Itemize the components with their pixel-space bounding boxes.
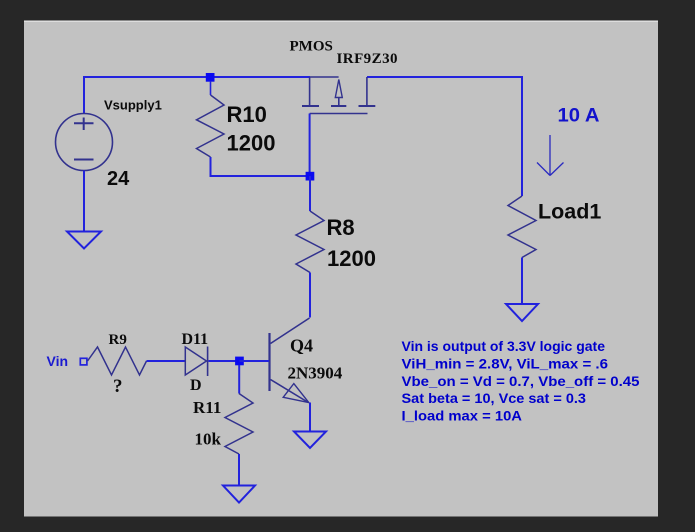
wire gate to junction [309,114,311,177]
base bar [268,333,270,391]
wire R9 to D11 [147,360,186,362]
svg-text:1200: 1200 [227,131,276,156]
svg-text:10 A: 10 A [558,106,600,127]
svg-text:PMOS: PMOS [290,38,333,54]
wire junction to Q4 base [240,360,270,362]
svg-text:24: 24 [107,168,130,190]
wire top rail right [367,77,522,196]
svg-text:D: D [190,377,202,394]
svg-text:D11: D11 [182,331,209,348]
node junction R10/R8/gate [306,172,315,181]
svg-text:R10: R10 [227,102,267,127]
svg-text:1200: 1200 [327,246,376,271]
resistor R9 [88,347,147,375]
annotation note text [402,338,640,424]
node junction at top rail / R10 [206,73,215,82]
svg-text:Sat beta = 10, Vce sat = 0.3: Sat beta = 10, Vce sat = 0.3 [402,390,587,406]
emitter arrow [283,384,309,403]
svg-text:Load1: Load1 [538,200,601,224]
svg-text:10k: 10k [195,430,222,449]
wire R10 top lead [210,81,212,95]
source plate [302,105,319,107]
ground (Load1) [506,304,538,321]
emitter lead [271,380,308,403]
node junction base/R11 [235,357,244,366]
wire R8 bottom to Q4 collector [309,273,311,318]
svg-text:Vsupply1: Vsupply1 [104,98,162,113]
wire Vsupply1 to ground [83,171,85,232]
resistor R11 [225,394,253,455]
ground (Vsupply1) [67,232,101,249]
transistor Q4 [270,318,310,403]
svg-text:R11: R11 [193,398,221,417]
collector lead [271,318,310,344]
drain plate [359,105,376,107]
svg-text:Vin is output of 3.3V logic ga: Vin is output of 3.3V logic gate [402,338,606,354]
drain stub [366,77,368,105]
svg-text:Vbe_on = Vd = 0.7, Vbe_off =: Vbe_on = Vd = 0.7, Vbe_off = 0.45 [402,373,640,389]
ground (R11) [223,486,255,503]
svg-text:I_load max = 10A: I_load max = 10A [402,408,523,424]
wire D11 to base junction [209,360,240,362]
wire Load1 to ground [521,258,523,305]
svg-text:Q4: Q4 [290,336,313,356]
svg-text:Vin: Vin [47,353,69,369]
pad Vin [80,358,87,365]
current arrow 10 A [537,135,564,176]
voltage source Vsupply1 [56,114,113,171]
resistor R10 [197,95,225,157]
svg-text:?: ? [113,376,123,397]
wire top rail left [84,77,310,114]
svg-text:IRF9Z30: IRF9Z30 [337,51,399,67]
body bar to arrow [310,76,339,78]
body plate [331,105,346,107]
svg-text:ViH_min = 2.8V, ViL_max = .6: ViH_min = 2.8V, ViL_max = .6 [402,355,609,371]
wire junction down to R11 [238,365,240,394]
diode D11 [185,347,207,377]
svg-text:R8: R8 [327,215,355,240]
wire Q4 emitter to ground [309,403,311,432]
source stub [309,77,311,105]
ground (Q4 emitter) [294,432,326,449]
svg-text:R9: R9 [109,332,127,348]
transistor U1 PMOS IRF9Z30 [302,77,375,114]
gate line [310,113,368,115]
wire R10 bottom to junction [211,157,311,176]
resistor Load1 [508,196,536,258]
wire R11 to ground [238,454,240,486]
svg-text:2N3904: 2N3904 [288,364,343,383]
wire R8 top lead [309,176,311,211]
body arrow [335,80,342,98]
resistor R8 [296,211,324,273]
